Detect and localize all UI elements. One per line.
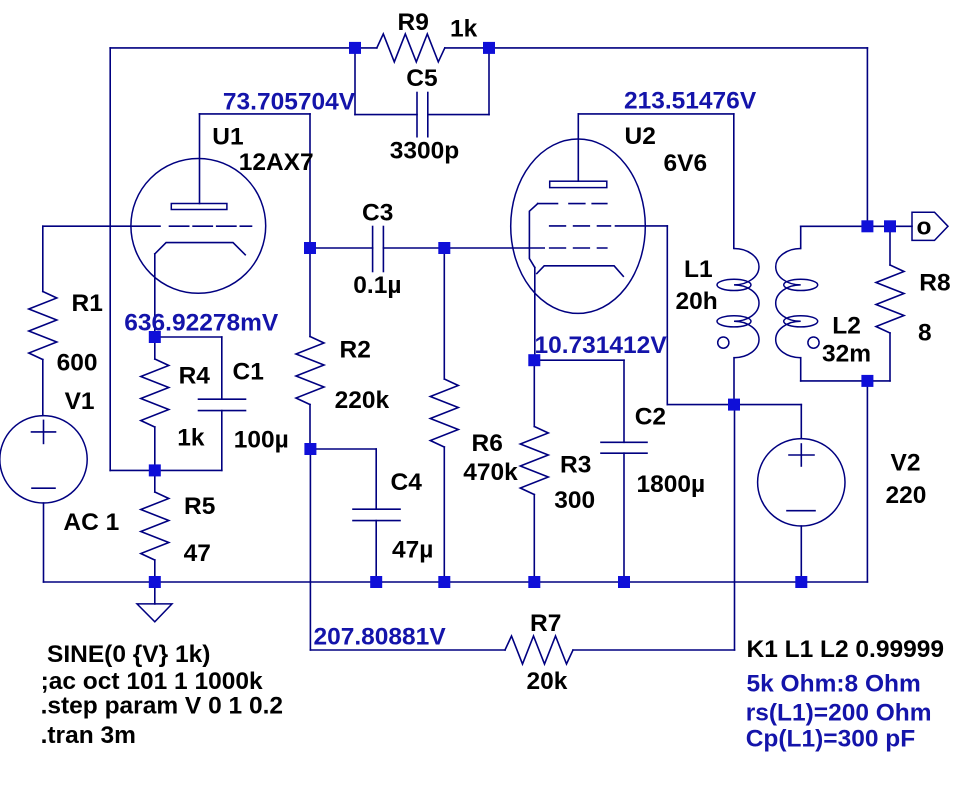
U2 g1 row dashes (550, 247, 607, 249)
svg-text:C3: C3 (362, 200, 393, 227)
junction L1 bottom / g2 / V2 / R7 (734,405) (728, 399, 740, 411)
svg-text:20k: 20k (527, 668, 568, 695)
wire R7 tap drop (309, 449, 311, 650)
wire U1 grid (43, 225, 160, 227)
U2 suppressor bracket (529, 204, 537, 268)
svg-text:Cp(L1)=300 pF: Cp(L1)=300 pF (746, 726, 916, 753)
resistor R9 (377, 34, 445, 62)
U2 plate bar (550, 181, 607, 187)
svg-text:47µ: 47µ (392, 537, 433, 564)
U1 cathode lead (154, 254, 156, 337)
svg-text:1800µ: 1800µ (637, 471, 706, 498)
wire to port (890, 225, 912, 227)
wire C4 bottom lead (375, 521, 377, 582)
wire R7 right lead (573, 649, 735, 651)
wire L1 bottom lead (733, 358, 735, 405)
svg-text:213.51476V: 213.51476V (624, 88, 757, 115)
U2 envelope ellipse (511, 139, 646, 313)
svg-text:220: 220 (886, 482, 927, 509)
svg-text:5k Ohm:8 Ohm: 5k Ohm:8 Ohm (747, 671, 921, 698)
wire R6 bottom lead (443, 447, 445, 582)
wire right drop to output node (866, 48, 868, 226)
svg-text:C1: C1 (233, 359, 264, 386)
U2 cathode lead (534, 268, 536, 361)
svg-text:R1: R1 (72, 290, 103, 317)
svg-text:32m: 32m (822, 341, 871, 368)
wire C2 bottom lead (623, 453, 625, 582)
wire R8 bottom lead (889, 333, 891, 381)
svg-text:V2: V2 (891, 450, 921, 477)
resistor R7 (505, 636, 573, 664)
junction C3 left / U1 plate (310,248) (304, 242, 316, 254)
wire R4 top lead (154, 337, 156, 359)
svg-text:47: 47 (184, 540, 211, 567)
junction output left (867,226) (861, 220, 873, 232)
resistor R3 (520, 427, 548, 495)
wire top rail right (445, 47, 868, 49)
wire U2 plate top (578, 113, 734, 115)
wire cathode node to C1 (155, 336, 222, 338)
svg-text:207.80881V: 207.80881V (314, 624, 447, 651)
wire C5 right rise (488, 48, 490, 115)
wire node to C4 (310, 448, 376, 450)
wire C5 left lead (355, 114, 417, 116)
svg-text:AC 1: AC 1 (63, 509, 119, 536)
capacitor C1 (199, 399, 246, 410)
junction C2 bottom rail (624,582) (618, 576, 630, 588)
junction C4 bottom rail (376,582) (370, 576, 382, 588)
svg-text:1k: 1k (450, 16, 478, 43)
svg-text:6V6: 6V6 (664, 150, 708, 177)
junction L2 bottom / R8 bottom (867,381) (861, 375, 873, 387)
svg-text:R9: R9 (398, 9, 429, 36)
svg-text:R2: R2 (340, 337, 371, 364)
wire R2 bottom lead (309, 405, 311, 450)
resistor R2 (296, 337, 324, 405)
wire R2 top lead (309, 248, 311, 337)
op-amp U1 tube 12AX7 triode (131, 114, 266, 337)
svg-text:o: o (917, 214, 932, 241)
junction R6 bottom rail (444,582) (438, 576, 450, 588)
wire U1 plate drop (309, 114, 311, 248)
wire V1 bottom (43, 503, 45, 582)
wire L2 bottom lead (800, 358, 802, 381)
U1 plate bar (171, 204, 227, 210)
wire R3 bottom lead (533, 495, 535, 583)
svg-text:8: 8 (918, 319, 932, 346)
wire R4 bottom lead (154, 427, 156, 470)
svg-text:U2: U2 (625, 123, 656, 150)
U2 plate lead (577, 114, 579, 181)
wire C2 top lead (623, 360, 625, 442)
svg-text:.step param V 0 1 0.2: .step param V 0 1 0.2 (41, 693, 283, 720)
U2 screen row solid (538, 203, 558, 205)
resistor R8 (876, 265, 904, 333)
junction R9 right (489,48) (483, 42, 495, 54)
wire top rail left (110, 47, 377, 49)
wire bottom rail (44, 581, 868, 583)
wire U1 plate top (200, 113, 311, 115)
wire L2 node drop to rail (866, 381, 868, 582)
wire R5 bottom lead (154, 560, 156, 582)
svg-text:;ac oct 101 1 1000k: ;ac oct 101 1 1000k (41, 668, 263, 695)
U1 envelope circle (131, 159, 266, 294)
U2 cathode (537, 266, 624, 277)
capacitor C2 (601, 442, 647, 453)
wire U2 grid (444, 247, 544, 249)
wire R1 top lead (42, 226, 44, 291)
inductor L1 (717, 249, 759, 358)
wire C1 bottom lead (221, 411, 223, 471)
svg-text:C5: C5 (406, 65, 437, 92)
svg-text:L2: L2 (832, 313, 861, 340)
U2 g2 exit wire (616, 225, 668, 227)
inductor L2 (776, 249, 819, 358)
junction R2 bottom / C4 / R7 tap (310,449) (304, 443, 316, 455)
transistor U2 tube 6V6 pentode (511, 114, 668, 360)
svg-text:SINE(0 {V} 1k): SINE(0 {V} 1k) (47, 641, 210, 668)
wire U2 plate to L1 (733, 114, 735, 249)
svg-text:3300p: 3300p (390, 138, 459, 165)
svg-text:1k: 1k (177, 424, 205, 451)
svg-text:C2: C2 (635, 403, 666, 430)
svg-text:R3: R3 (560, 452, 591, 479)
voltage source V1 (0, 416, 87, 503)
svg-text:20h: 20h (676, 288, 718, 315)
junction output right / R8 (890,226) (884, 220, 896, 232)
wire C3 right lead (383, 247, 444, 249)
wire C5 left drop (354, 48, 356, 115)
svg-text:0.1µ: 0.1µ (353, 272, 401, 299)
node o output port flag (912, 212, 948, 240)
junction V2 bottom rail (801,582) (795, 576, 807, 588)
svg-text:220k: 220k (335, 387, 390, 414)
wire cathode node to C2 (534, 359, 624, 361)
svg-text:K1 L1 L2 0.99999: K1 L1 L2 0.99999 (747, 636, 944, 663)
wire R7 left lead (310, 649, 505, 651)
ground (137, 582, 172, 622)
svg-text:R8: R8 (919, 269, 950, 296)
resistor R1 (29, 292, 57, 360)
junction R4 bottom / C1 / feedback (155,470) (149, 464, 161, 476)
wire L2 top (801, 225, 868, 227)
svg-text:.tran 3m: .tran 3m (41, 722, 136, 749)
junction U1 cathode / R4 / C1 (155,337) (149, 331, 161, 343)
svg-text:U1: U1 (212, 124, 243, 151)
resistor R5 (141, 492, 169, 560)
capacitor C5 (417, 93, 428, 137)
U1 cathode (155, 243, 245, 255)
U1 grid dashes (170, 225, 252, 227)
svg-text:R5: R5 (184, 493, 215, 520)
svg-text:rs(L1)=200 Ohm: rs(L1)=200 Ohm (746, 700, 932, 727)
wire R5 top lead (154, 470, 156, 492)
svg-text:73.705704V: 73.705704V (223, 88, 356, 115)
wire C3 left lead (310, 247, 373, 249)
wire L1 node to V2 (734, 404, 801, 406)
wire C4 top lead (375, 449, 377, 509)
svg-text:600: 600 (57, 350, 98, 377)
wire output node link (867, 225, 890, 227)
svg-text:100µ: 100µ (234, 427, 289, 454)
junction R3 bottom rail (534,582) (528, 576, 540, 588)
U2 g2 row dashes (550, 225, 611, 227)
svg-text:R4: R4 (179, 363, 211, 390)
svg-text:12AX7: 12AX7 (239, 149, 314, 176)
svg-text:10.731412V: 10.731412V (535, 332, 668, 359)
wire C1 top lead (221, 337, 223, 399)
svg-text:470k: 470k (463, 459, 518, 486)
svg-text:636.92278mV: 636.92278mV (124, 310, 279, 337)
U1 plate lead (199, 114, 201, 204)
resistor R4 (141, 359, 169, 427)
wire V2 top lead (800, 405, 802, 439)
svg-text:R6: R6 (472, 430, 503, 457)
wire C1 bottom to node (155, 469, 222, 471)
wire U2 g2 drop (666, 226, 668, 405)
svg-text:L1: L1 (684, 256, 713, 283)
junction C3 right / R6 / U2 grid (444,248) (438, 242, 450, 254)
voltage source V2 (758, 439, 845, 526)
junction ground / R5 (155,582) (149, 576, 161, 588)
U2 screen row dashes (569, 203, 607, 205)
wire R3 top lead (533, 360, 535, 426)
capacitor C3 (373, 227, 384, 272)
wire V2 bottom lead (800, 526, 802, 582)
wire R8 bottom to node (867, 380, 890, 382)
wire R7 rise to L1 node (734, 405, 736, 650)
wire L2 top lead (800, 226, 802, 248)
resistor R6 (430, 379, 458, 447)
junction U2 cathode / R3 / C2 (534,360) (528, 354, 540, 366)
junction R9 left (355,48) (349, 42, 361, 54)
wire L2 bottom to node (801, 380, 868, 382)
wire R8 top lead (889, 226, 891, 265)
wire g2 to L1 node (667, 404, 734, 406)
wire C5 right lead (428, 114, 489, 116)
wire feedback left vertical (109, 48, 111, 471)
svg-text:C4: C4 (391, 469, 423, 496)
wire R1 to V1 (42, 360, 44, 416)
svg-text:V1: V1 (65, 388, 95, 415)
svg-text:300: 300 (554, 487, 595, 514)
svg-text:R7: R7 (530, 610, 561, 637)
wire R6 top lead (443, 248, 445, 379)
capacitor C4 (353, 509, 400, 520)
wire feedback to cathode node (110, 469, 155, 471)
